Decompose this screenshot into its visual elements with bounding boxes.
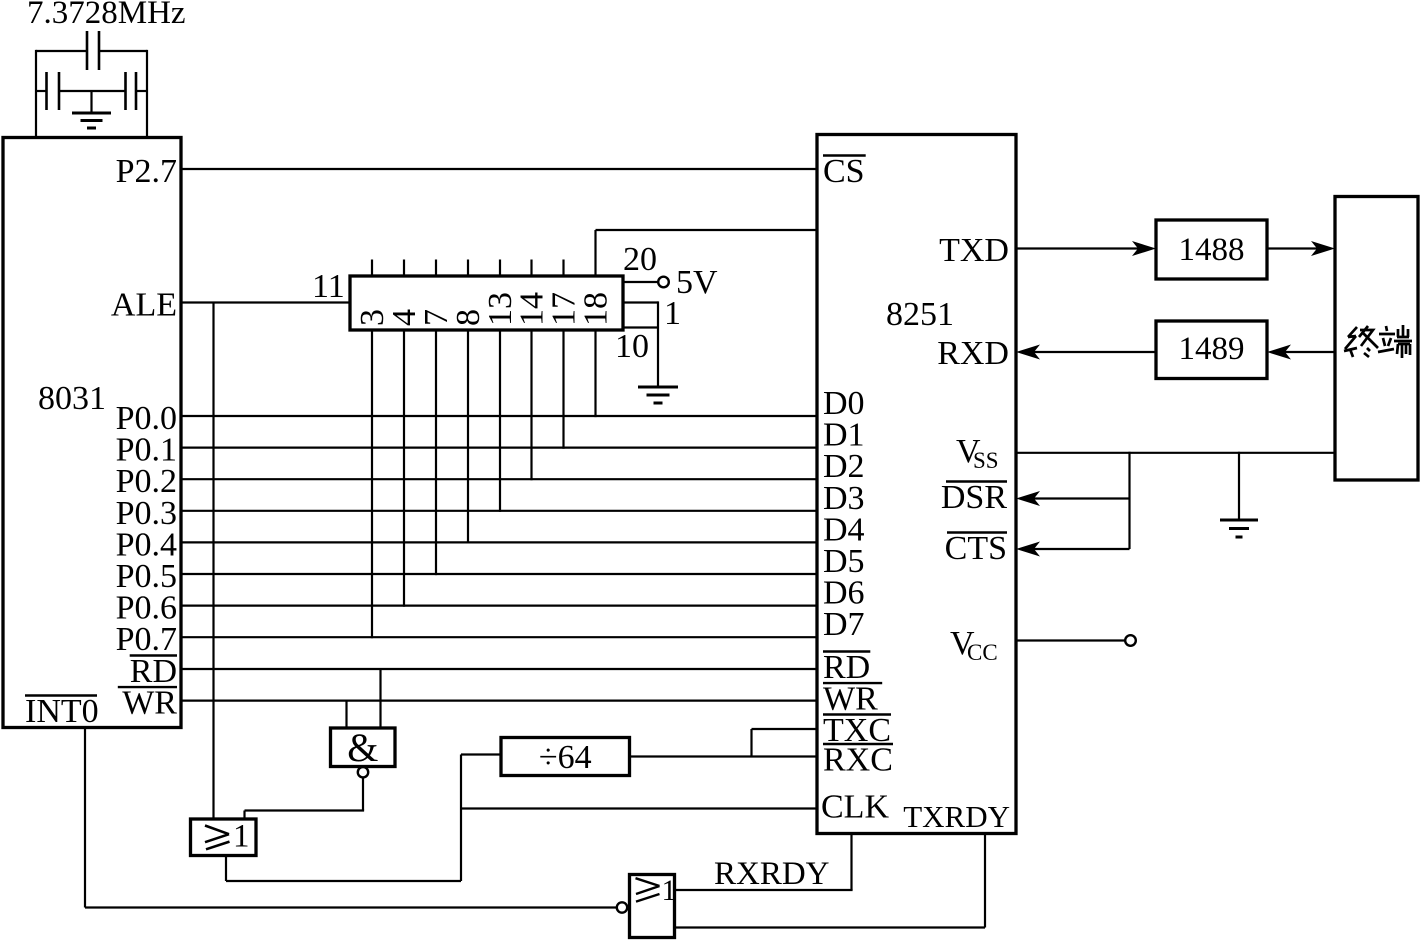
wire VCC: [1016, 639, 1125, 641]
pin label TXD: [939, 232, 1009, 269]
divider U5 body: [501, 738, 630, 776]
svg-text:8251: 8251: [886, 296, 954, 333]
svg-text:5V: 5V: [676, 264, 718, 301]
pin label P0.1: [116, 432, 177, 469]
wire latch pin 4 to D6: [403, 330, 405, 607]
pin label CTS: [945, 530, 1007, 567]
wire pin 20 to 5V: [623, 281, 658, 283]
wire terminal to 1489: [1267, 345, 1335, 360]
svg-text:1: 1: [233, 819, 250, 855]
wire ALE to latch pin 11: [181, 301, 350, 303]
svg-text:ALE: ALE: [111, 287, 177, 324]
svg-text:RXRDY: RXRDY: [714, 856, 830, 892]
svg-text:11: 11: [312, 268, 345, 305]
pin label P0.0: [116, 400, 177, 437]
and-gate U3 body: [331, 728, 396, 767]
wire P0.3 to D3: [181, 510, 817, 512]
pin label P0.7: [116, 621, 177, 658]
pin label P0.4: [116, 526, 177, 563]
pin label CLK: [821, 789, 889, 826]
pin label RD: [130, 653, 177, 690]
latch top stub Q0: [371, 260, 373, 277]
terminal VCC circle: [1125, 635, 1136, 646]
pin number 10: [615, 328, 649, 365]
wire P0.0 to D0: [181, 415, 817, 417]
latch top stub Q3: [467, 260, 469, 277]
capacitor C1: [36, 72, 59, 110]
pin label RXD: [937, 335, 1009, 372]
or-gate U4 body: [191, 819, 257, 856]
svg-text:10: 10: [615, 328, 649, 365]
wire RD to and input: [379, 668, 381, 728]
wire P0.4 to D4: [181, 541, 817, 543]
wire P0.1 to D1: [181, 447, 817, 449]
svg-text:8031: 8031: [38, 380, 106, 417]
capacitor C2: [126, 72, 148, 110]
svg-text:20: 20: [623, 241, 657, 278]
wire latch pin 18 to D0: [594, 330, 596, 417]
terminal 5V circle: [658, 277, 669, 288]
wire latch pin 7 to D5: [435, 330, 437, 575]
pin number 13: [482, 292, 519, 326]
wire crystal top: [36, 50, 147, 52]
wire divider output to RXC: [630, 755, 818, 757]
pin label P0.3: [116, 495, 177, 532]
label 8251: [886, 296, 954, 333]
svg-text:SS: SS: [973, 448, 999, 473]
svg-text:INT0: INT0: [25, 693, 99, 730]
label &#247;64: [539, 739, 592, 776]
svg-text:P2.7: P2.7: [116, 153, 177, 190]
pin label D5: [823, 543, 865, 580]
IC U1 8031 body: [3, 138, 181, 728]
label 8031: [38, 380, 106, 417]
pin number 7: [418, 309, 455, 326]
pin label 8251 RD: [823, 649, 870, 686]
ground VSS: [1220, 520, 1258, 537]
pin number 20: [623, 241, 657, 278]
pin label D4: [823, 511, 865, 548]
svg-text:÷64: ÷64: [539, 739, 592, 776]
wire TXRDY net: [674, 834, 986, 928]
pin number 11: [312, 268, 345, 305]
driver U7 1488 body: [1156, 220, 1267, 279]
label terminal (Chinese): [1344, 325, 1412, 358]
wire latch pin 14 to D2: [530, 330, 532, 480]
wire to divider input: [461, 753, 501, 755]
wire 1488 to terminal: [1267, 241, 1335, 256]
svg-text:CC: CC: [967, 640, 998, 665]
pin label TXRDY: [903, 799, 1010, 834]
ground crystal: [72, 113, 111, 128]
label U4 &#8805;1: [205, 819, 250, 855]
wire and output to or-gate: [245, 777, 365, 819]
label &amp;: [347, 725, 378, 770]
svg-text:18: 18: [578, 292, 615, 326]
latch top stub Q4: [499, 260, 501, 277]
pin label CS: [823, 153, 866, 190]
label 1488: [1179, 232, 1245, 268]
svg-text:1489: 1489: [1179, 331, 1245, 367]
pin label VSS: [956, 433, 999, 473]
or-gate U9 body: [630, 875, 675, 938]
pin number 14: [514, 292, 551, 326]
crystal frequency label 7.3728MHz: [27, 0, 186, 31]
svg-text:1: 1: [662, 874, 677, 907]
and output bubble: [358, 767, 368, 777]
label U9 &#8805;1: [636, 874, 677, 907]
svg-text:CS: CS: [823, 153, 865, 190]
wire P2.7 to CS: [181, 168, 817, 170]
pin label WR: [118, 685, 178, 722]
pin label D3: [823, 480, 865, 517]
latch top stub Q5: [530, 260, 532, 277]
pin label D0: [823, 385, 865, 422]
wire CLK: [461, 807, 817, 809]
terminal box body: [1335, 197, 1418, 481]
U9 output bubble: [617, 902, 627, 912]
svg-text:CLK: CLK: [821, 789, 889, 826]
pin number 18: [578, 292, 615, 326]
wire P0.7 to D7: [181, 636, 817, 638]
pin label RXC: [823, 742, 893, 779]
wire TXD to 1488: [1016, 241, 1156, 256]
label RXRDY: [714, 856, 830, 892]
IC U6 8251 body: [817, 135, 1016, 834]
wire P0.2 to D2: [181, 478, 817, 480]
pin number 8: [450, 309, 487, 326]
pin label D7: [823, 606, 865, 643]
svg-text:DSR: DSR: [941, 479, 1007, 516]
pin label INT0: [25, 693, 99, 730]
pin label P2.7: [116, 153, 177, 190]
wire latch pin 17 to D1: [562, 330, 564, 449]
latch top stub Q2: [435, 260, 437, 277]
svg-text:RXD: RXD: [937, 335, 1009, 372]
pin label P0.5: [116, 558, 177, 595]
pin number 3: [354, 309, 391, 326]
pin number 4: [386, 309, 423, 326]
wire latch pin 8 to D4: [467, 330, 469, 544]
svg-text:TXD: TXD: [939, 232, 1009, 269]
pin label P0.6: [116, 590, 177, 627]
label 5V: [676, 264, 718, 301]
wire RXRDY vertical: [850, 834, 852, 891]
wire VSS to ground: [1238, 452, 1240, 520]
wire 1489 to RXD: [1016, 345, 1156, 360]
wire VSS branch down: [1128, 452, 1130, 549]
wire cap node to ground: [90, 91, 92, 113]
wire latch pin 13 to D3: [499, 330, 501, 512]
wire INT0 net: [85, 728, 617, 908]
svg-text:CTS: CTS: [945, 530, 1007, 567]
wire WR bus: [181, 699, 817, 701]
label 1489: [1179, 331, 1245, 367]
wire latch pin 3 to D7: [371, 330, 373, 638]
wire or-gate output: [226, 755, 461, 882]
svg-text:RXC: RXC: [823, 742, 893, 779]
wire RXC to TXC jog: [752, 729, 818, 758]
wire P0.5 to D5: [181, 573, 817, 575]
svg-text:WR: WR: [122, 685, 177, 722]
pin number 1: [664, 295, 681, 332]
pin label P0.2: [116, 463, 177, 500]
pin label VCC: [950, 625, 998, 665]
wire pin 10 to ground: [623, 326, 658, 328]
svg-text:&: &: [347, 725, 378, 770]
receiver U8 1489 body: [1156, 321, 1267, 379]
pin label 8251 WR: [823, 681, 882, 718]
wire WR to and input: [345, 700, 347, 728]
wire RD bus: [181, 668, 817, 670]
svg-text:TXRDY: TXRDY: [903, 799, 1010, 834]
pin label TXC: [823, 712, 891, 749]
wire VSS to terminal: [1016, 452, 1335, 454]
wire ALE branch down: [212, 302, 214, 820]
wire DSR: [1016, 491, 1130, 506]
wire C1 to C2 node: [59, 90, 126, 92]
svg-text:1488: 1488: [1179, 232, 1245, 268]
svg-text:1: 1: [664, 295, 681, 332]
pin label DSR: [941, 479, 1007, 516]
pin label D6: [823, 575, 865, 612]
svg-text:D7: D7: [823, 606, 865, 643]
pin number 17: [546, 292, 583, 326]
latch top stub Q1: [403, 260, 405, 277]
pin label D2: [823, 448, 865, 485]
svg-text:7.3728MHz: 7.3728MHz: [27, 0, 186, 31]
ground latch: [638, 387, 678, 403]
wire P0.6 to D6: [181, 604, 817, 606]
wire crystal loop left: [35, 50, 37, 139]
pin label ALE: [111, 287, 177, 324]
crystal Y1: [87, 31, 99, 70]
wire RXRDY horizontal: [674, 889, 853, 891]
wire crystal loop right: [146, 50, 148, 139]
IC U2 latch body: [350, 276, 623, 330]
wire pin 1 to ground: [623, 301, 658, 387]
latch top stub Q6: [562, 260, 564, 277]
pin label D1: [823, 417, 865, 454]
wire latch Q to C/D: [596, 230, 818, 276]
wire CTS: [1016, 542, 1130, 557]
